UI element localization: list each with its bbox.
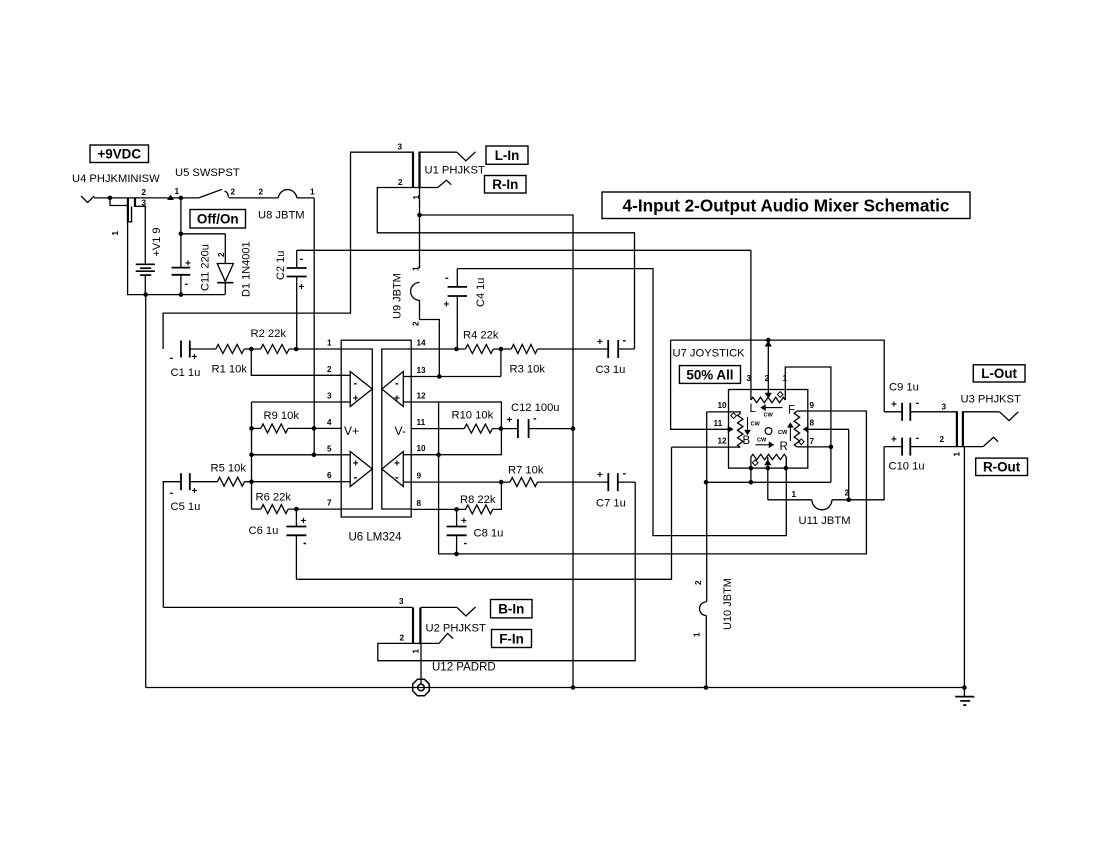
battery V1 9 bbox=[136, 264, 155, 275]
op-amp D triangle bbox=[382, 372, 404, 407]
svg-text:3: 3 bbox=[398, 143, 403, 152]
svg-text:11: 11 bbox=[417, 418, 426, 427]
pin 2 label U9 bbox=[412, 321, 421, 326]
capacitor C10 1u bbox=[902, 438, 910, 456]
resistor R7 10k bbox=[510, 478, 537, 487]
capacitor C12 minus bbox=[533, 413, 537, 425]
wire R8 up to pin9 bbox=[493, 482, 502, 509]
wire U3 pin1 to ground bbox=[963, 447, 965, 688]
pot F bottom wire pin7 bbox=[797, 446, 831, 448]
svg-text:L-In: L-In bbox=[495, 148, 520, 163]
svg-text:U6 LM324: U6 LM324 bbox=[349, 532, 403, 544]
node F pin7 dot bbox=[829, 445, 834, 450]
svg-text:2: 2 bbox=[231, 188, 236, 197]
svg-text:R4 22k: R4 22k bbox=[463, 330, 499, 342]
svg-text:-: - bbox=[916, 397, 920, 409]
pin 2 label U10 bbox=[694, 580, 703, 585]
svg-text:1: 1 bbox=[693, 632, 702, 637]
svg-text:12: 12 bbox=[718, 437, 728, 446]
connector U4 plug body bbox=[127, 198, 135, 222]
svg-text:+: + bbox=[891, 435, 897, 446]
svg-text:2: 2 bbox=[327, 365, 332, 374]
svg-text:CW: CW bbox=[751, 422, 761, 428]
capacitor C3 label bbox=[596, 364, 626, 376]
pin 3 label U7 bbox=[747, 374, 752, 383]
svg-text:1: 1 bbox=[412, 266, 421, 271]
pin 1 label U10 bbox=[693, 632, 702, 637]
svg-text:11: 11 bbox=[714, 419, 723, 428]
svg-text:R-Out: R-Out bbox=[983, 460, 1021, 475]
capacitor C2 minus bbox=[300, 253, 304, 265]
wire battery minus bbox=[144, 275, 146, 295]
loop R10 box bbox=[439, 402, 502, 455]
jumper U10 label bbox=[722, 578, 734, 630]
pot diamond B bbox=[731, 413, 737, 419]
wire C7 right bbox=[618, 481, 635, 483]
svg-text:+: + bbox=[353, 459, 359, 470]
svg-text:+: + bbox=[891, 400, 897, 411]
svg-text:2: 2 bbox=[400, 634, 405, 643]
wire U4 tip hook bbox=[110, 198, 128, 206]
svg-text:U8 JBTM: U8 JBTM bbox=[258, 210, 305, 222]
node U5/C11 junction dot bbox=[179, 196, 184, 201]
svg-text:1: 1 bbox=[783, 374, 788, 383]
pin 2 label U8 bbox=[259, 188, 264, 197]
pot B cw arrow bbox=[744, 417, 760, 435]
pin 2 label U4 bbox=[142, 188, 147, 197]
wire U2 pin2 to C7 bbox=[378, 482, 635, 661]
svg-text:C3 1u: C3 1u bbox=[596, 364, 626, 376]
diode D1 pin2 label bbox=[217, 252, 226, 257]
pot U7 50% box bbox=[679, 366, 740, 384]
svg-text:V+: V+ bbox=[344, 424, 359, 438]
svg-text:C8 1u: C8 1u bbox=[474, 528, 504, 540]
switch U5 pole arrow bbox=[167, 195, 174, 200]
wire joystick L input drop bbox=[750, 250, 752, 400]
pot R wiper bbox=[764, 457, 771, 500]
svg-text:L: L bbox=[750, 403, 757, 415]
svg-text:+: + bbox=[192, 352, 198, 363]
svg-text:2: 2 bbox=[398, 178, 403, 187]
resistor R10 label bbox=[452, 410, 494, 422]
svg-text:+: + bbox=[507, 415, 513, 426]
pin 1 label U8 bbox=[310, 188, 315, 197]
pin 3 label U4 bbox=[142, 199, 147, 208]
node U4 tip junction dot bbox=[108, 196, 113, 201]
wire pin12 row bbox=[411, 401, 438, 403]
pot U7 JOYSTICK label bbox=[673, 348, 746, 360]
node L wiper top dot bbox=[766, 338, 771, 343]
jumper U8 JBTM bbox=[278, 190, 297, 198]
wire C12 to ground bus bbox=[529, 428, 573, 430]
capacitor C4 1u bbox=[448, 269, 467, 349]
resistor R2 22k bbox=[261, 345, 289, 354]
capacitor C9 plus bbox=[891, 400, 897, 411]
capacitor C7 minus bbox=[623, 468, 627, 480]
svg-text:+: + bbox=[394, 394, 400, 405]
wire pin9 row bbox=[411, 481, 510, 483]
capacitor C8 1u bbox=[447, 509, 467, 554]
capacitor C12 plus bbox=[507, 415, 513, 426]
node C11 bottom dot bbox=[179, 292, 184, 297]
wire R10 to C12 bbox=[492, 428, 518, 430]
connector U1 PHJKST plug bbox=[412, 152, 421, 188]
capacitor C7 label bbox=[596, 498, 626, 510]
pot R stubs bbox=[751, 457, 786, 468]
connector U2 tip contact bbox=[421, 607, 476, 616]
capacitor C11 plus bbox=[185, 259, 191, 270]
switch U5 lever bbox=[199, 189, 222, 198]
node rail dot right bbox=[962, 685, 967, 690]
wire V+ rail vertical bbox=[313, 198, 315, 455]
pin 1 label U11 bbox=[792, 490, 797, 499]
connector U3 label bbox=[961, 394, 1021, 406]
svg-text:C12 100u: C12 100u bbox=[511, 402, 560, 414]
svg-text:C7 1u: C7 1u bbox=[596, 498, 626, 510]
pot diamond L bbox=[777, 392, 783, 398]
battery V1 label bbox=[151, 227, 163, 256]
connector U4 PHJKMINISW label bbox=[72, 173, 160, 185]
node C12 bus dot bbox=[571, 426, 576, 431]
resistor R8 label bbox=[460, 494, 496, 506]
svg-text:13: 13 bbox=[417, 366, 427, 375]
resistor R6 label bbox=[256, 492, 292, 504]
capacitor C2 label bbox=[275, 251, 287, 280]
wire R7 to C7 bbox=[538, 481, 609, 483]
svg-text:C5 1u: C5 1u bbox=[171, 501, 201, 513]
svg-text:R6 22k: R6 22k bbox=[256, 492, 292, 504]
svg-text:U9 JBTM: U9 JBTM bbox=[392, 273, 404, 319]
svg-text:-: - bbox=[354, 472, 358, 484]
svg-text:Off/On: Off/On bbox=[197, 212, 239, 227]
wire C3 right bbox=[618, 348, 634, 350]
capacitor C3 plus bbox=[597, 337, 603, 348]
svg-text:U2 PHJKST: U2 PHJKST bbox=[426, 623, 486, 635]
op-amp C triangle bbox=[382, 452, 404, 487]
pot F top wire pin9 bbox=[797, 410, 808, 412]
svg-text:U11 JBTM: U11 JBTM bbox=[799, 515, 851, 527]
pin 10 label U7 bbox=[718, 401, 728, 410]
resistor R9 10k bbox=[261, 424, 288, 433]
svg-text:V-: V- bbox=[395, 424, 406, 438]
capacitor C6 1u bbox=[286, 509, 306, 579]
wire C5 left bbox=[163, 482, 181, 608]
pot B label bbox=[743, 435, 751, 447]
svg-text:+9VDC: +9VDC bbox=[97, 147, 141, 162]
resistor R1 10k bbox=[216, 345, 244, 354]
svg-text:R10 10k: R10 10k bbox=[452, 410, 494, 422]
pot L label bbox=[750, 403, 757, 415]
svg-text:U10 JBTM: U10 JBTM bbox=[722, 578, 734, 630]
capacitor C1 minus bbox=[170, 352, 174, 364]
pin 1 label U3 bbox=[953, 452, 962, 457]
svg-text:C9 1u: C9 1u bbox=[889, 382, 919, 394]
node R-Out label box bbox=[976, 458, 1028, 475]
svg-text:14: 14 bbox=[417, 339, 427, 348]
svg-text:-: - bbox=[395, 378, 399, 390]
wire U8 to V+ rail bbox=[297, 197, 314, 199]
svg-text:R3 10k: R3 10k bbox=[510, 364, 546, 376]
resistor R5 label bbox=[211, 463, 247, 475]
pot L wiper bbox=[765, 340, 772, 398]
switch U5 throw contact bbox=[225, 191, 229, 198]
node L-Out label box bbox=[973, 365, 1025, 382]
svg-text:C4 1u: C4 1u bbox=[475, 278, 487, 307]
connector U3 PHJKST plug bbox=[956, 411, 964, 447]
ground symbol bbox=[955, 688, 974, 706]
node U1 sleeve dot bbox=[417, 213, 422, 218]
svg-text:2: 2 bbox=[217, 252, 226, 257]
node common R dot bbox=[749, 480, 754, 485]
wire U7 outline left bbox=[671, 340, 733, 429]
svg-text:8: 8 bbox=[810, 419, 815, 428]
svg-text:12: 12 bbox=[417, 392, 427, 401]
wire U2 pin3 bbox=[163, 606, 412, 608]
svg-text:F: F bbox=[788, 405, 795, 417]
wire R9 ends bbox=[252, 427, 314, 429]
svg-text:C11 220u: C11 220u bbox=[200, 244, 212, 291]
wire C4 to R-pot feed bbox=[457, 269, 786, 536]
pot R label bbox=[780, 441, 788, 453]
svg-text:-: - bbox=[623, 335, 627, 347]
wire R2 to pin1 bbox=[289, 348, 341, 350]
pot B zigzag bbox=[738, 414, 743, 448]
pin 1 label U6 bbox=[327, 339, 332, 348]
wire U1 pin3 left bbox=[163, 152, 412, 349]
svg-text:U12 PADRD: U12 PADRD bbox=[432, 662, 496, 674]
capacitor C10 plus bbox=[891, 435, 897, 446]
capacitor C5 1u bbox=[181, 473, 190, 490]
svg-text:C10 1u: C10 1u bbox=[889, 461, 925, 473]
capacitor C1 plus bbox=[192, 352, 198, 363]
svg-text:C1 1u: C1 1u bbox=[171, 367, 201, 379]
resistor R3 label bbox=[510, 364, 546, 376]
pot B top wire pin10 bbox=[707, 412, 741, 414]
net V+ label bbox=[344, 424, 359, 438]
resistor R1 label bbox=[212, 364, 248, 376]
jumper U11 label bbox=[799, 515, 851, 527]
capacitor C4 plus bbox=[444, 300, 450, 311]
pot L zigzag bbox=[751, 397, 785, 402]
capacitor C6 minus tick bbox=[304, 543, 307, 545]
node U11 pin8 dot bbox=[846, 498, 851, 503]
capacitor C8 minus tick bbox=[464, 543, 467, 545]
svg-text:+: + bbox=[444, 300, 450, 311]
node R8/C8 junction dot bbox=[454, 507, 459, 512]
wire pin5 row bbox=[252, 454, 342, 456]
node R9 left dot bbox=[249, 426, 254, 431]
svg-text:7: 7 bbox=[810, 437, 815, 446]
net V- label bbox=[395, 424, 406, 438]
capacitor C3 minus bbox=[623, 335, 627, 347]
svg-text:+: + bbox=[353, 394, 359, 405]
svg-text:-: - bbox=[185, 278, 189, 290]
svg-text:1: 1 bbox=[175, 187, 180, 196]
capacitor C11 label bbox=[200, 244, 212, 291]
pot L cw arrow bbox=[760, 404, 782, 418]
pin 4 label U6 bbox=[327, 418, 332, 427]
node pin5 column dot bbox=[249, 453, 254, 458]
pin 2 label U3 bbox=[940, 435, 945, 444]
svg-text:-: - bbox=[916, 432, 920, 444]
wire U1 pin2 bbox=[377, 188, 634, 350]
pot L right end bbox=[785, 367, 831, 482]
wire U4 pin3 to battery bbox=[136, 206, 146, 263]
connector U3 tip contact bbox=[964, 412, 1019, 421]
svg-text:R2 22k: R2 22k bbox=[251, 328, 287, 340]
wire R5 to pin6 bbox=[245, 481, 342, 483]
wire pin8 row bbox=[411, 508, 465, 510]
svg-text:-: - bbox=[445, 272, 449, 284]
wire joystick common bbox=[706, 481, 831, 483]
wire feedback pin2 bbox=[251, 349, 341, 375]
svg-text:1: 1 bbox=[310, 188, 315, 197]
wire pin8 drop bbox=[848, 429, 850, 500]
capacitor C6 plus bbox=[301, 516, 307, 527]
pin 12 label U6 bbox=[417, 392, 427, 401]
svg-text:10: 10 bbox=[718, 401, 728, 410]
pot B bottom wire pin12 bbox=[672, 446, 741, 448]
svg-text:+V1 9: +V1 9 bbox=[151, 227, 163, 256]
pin 3 label U2 bbox=[399, 597, 404, 606]
wire C9 to U3 bbox=[910, 411, 956, 413]
capacitor C4 minus bbox=[445, 272, 449, 284]
wire R1-R2 bbox=[244, 348, 261, 350]
node F-In label box bbox=[492, 630, 532, 648]
diode D1 1N4001 bbox=[217, 234, 233, 295]
wire C11-D1 link bbox=[181, 233, 225, 235]
pin 2 label U2 bbox=[400, 634, 405, 643]
svg-text:C2 1u: C2 1u bbox=[275, 251, 287, 280]
node R6/C6 junction dot bbox=[294, 507, 299, 512]
svg-text:2: 2 bbox=[940, 435, 945, 444]
wire R3 to C3 bbox=[538, 348, 609, 350]
switch Off/On label box bbox=[190, 210, 246, 229]
wire U2 pin1 bbox=[420, 644, 422, 685]
pad U12 PADRD bbox=[413, 679, 430, 696]
wire pin13 row bbox=[411, 376, 501, 378]
svg-text:R1 10k: R1 10k bbox=[212, 364, 248, 376]
node +9VDC label box bbox=[90, 145, 149, 163]
op-amp U6 inner left bbox=[341, 349, 372, 509]
node R7/R8 junction dot bbox=[499, 480, 504, 485]
wire U11 to C10 riser bbox=[832, 447, 884, 500]
capacitor C4 label bbox=[475, 278, 487, 307]
node C4 bottom dot bbox=[454, 347, 459, 352]
wire pin4 row bbox=[314, 427, 341, 429]
resistor R4 label bbox=[463, 330, 499, 342]
wire C9 left bbox=[884, 411, 902, 413]
wire C2 to joystick L bbox=[297, 249, 751, 251]
svg-text:9: 9 bbox=[810, 401, 815, 410]
svg-text:B: B bbox=[743, 435, 751, 447]
svg-text:U7 JOYSTICK: U7 JOYSTICK bbox=[673, 348, 746, 360]
jumper U11 JBTM bbox=[812, 500, 832, 510]
capacitor C9 1u bbox=[902, 403, 910, 421]
capacitor C9 minus bbox=[916, 397, 920, 409]
capacitor C3 1u bbox=[608, 340, 618, 358]
wire sleeve bus bbox=[420, 215, 574, 688]
pin 2 label U5 bbox=[231, 188, 236, 197]
op-amp U6 inner right bbox=[382, 349, 411, 509]
pot diamond R bbox=[752, 460, 758, 466]
wire pin11 row bbox=[411, 428, 456, 430]
wire U10 to rail bbox=[705, 616, 707, 688]
wire U9 pin2 to pin13 row bbox=[420, 300, 440, 376]
switch U5 SWSPST label bbox=[175, 167, 240, 179]
connector U3 ring contact bbox=[964, 437, 999, 446]
connector U1 ring contact bbox=[421, 180, 452, 187]
wire +9V input bbox=[94, 197, 199, 199]
svg-text:5: 5 bbox=[327, 444, 332, 453]
pin 2 label U7 bbox=[765, 374, 770, 383]
svg-text:1: 1 bbox=[327, 339, 332, 348]
resistor R4 22k bbox=[465, 345, 493, 354]
capacitor C12 100u bbox=[518, 419, 529, 438]
svg-text:7: 7 bbox=[327, 499, 332, 508]
svg-text:2: 2 bbox=[142, 188, 147, 197]
svg-text:U1 PHJKST: U1 PHJKST bbox=[425, 165, 485, 177]
wire U7 outline top bbox=[671, 340, 885, 412]
connector U1 tip contact bbox=[421, 152, 476, 161]
capacitor C8 plus bbox=[461, 516, 467, 527]
node common left dot bbox=[704, 480, 709, 485]
pot F label bbox=[788, 405, 795, 417]
pin 7 label U7 bbox=[810, 437, 815, 446]
pin 10 label U6 bbox=[417, 444, 427, 453]
svg-text:-: - bbox=[623, 468, 627, 480]
svg-text:2: 2 bbox=[412, 321, 421, 326]
svg-text:3: 3 bbox=[399, 597, 404, 606]
pin 13 label U6 bbox=[417, 366, 427, 375]
wire U4 pin1 to bottom bbox=[128, 222, 225, 295]
node rail dot u10 bbox=[704, 685, 709, 690]
pin 9 label U6 bbox=[417, 472, 422, 481]
node R wiper dot bbox=[766, 466, 771, 471]
svg-text:L-Out: L-Out bbox=[981, 366, 1017, 381]
jumper U9 label bbox=[392, 273, 404, 319]
svg-text:2: 2 bbox=[694, 580, 703, 585]
svg-text:R8 22k: R8 22k bbox=[460, 494, 496, 506]
jumper U9 JBTM bbox=[411, 283, 420, 301]
wire ground rail bbox=[146, 687, 965, 689]
connector U4 tip contact bbox=[81, 196, 94, 203]
capacitor C11 minus bbox=[185, 278, 189, 290]
svg-text:+: + bbox=[597, 337, 603, 348]
pin 8 label U7 bbox=[810, 419, 815, 428]
svg-text:D1 1N4001: D1 1N4001 bbox=[241, 241, 253, 297]
pin 2 label U6 bbox=[327, 365, 332, 374]
resistor R8 22k bbox=[466, 505, 493, 514]
pin 1 label U1 bbox=[412, 195, 421, 200]
pot F zigzag bbox=[794, 411, 799, 447]
wire pin14 row bbox=[411, 348, 465, 350]
node pin10 corner dot bbox=[436, 452, 441, 457]
svg-text:-: - bbox=[170, 487, 174, 499]
svg-text:CW: CW bbox=[778, 430, 788, 436]
pin 1 label U2 bbox=[412, 649, 421, 654]
node pin13 U9 dot bbox=[437, 374, 442, 379]
svg-text:+: + bbox=[394, 459, 400, 470]
pin 1 label U5 bbox=[175, 187, 180, 196]
svg-text:U3 PHJKST: U3 PHJKST bbox=[961, 394, 1021, 406]
svg-text:50% All: 50% All bbox=[686, 367, 733, 382]
node R right dot bbox=[784, 466, 789, 471]
pin 11 label U7 bbox=[714, 419, 723, 428]
resistor R2 label bbox=[251, 328, 287, 340]
pin 14 label U6 bbox=[417, 339, 427, 348]
capacitor C5 label bbox=[171, 501, 201, 513]
